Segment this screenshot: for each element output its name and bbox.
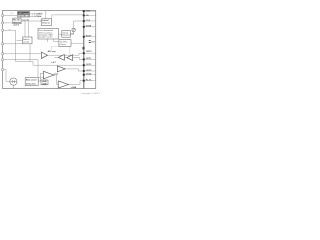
svg-text:fin: fin — [9, 29, 11, 31]
svg-text:BUSY: BUSY — [86, 36, 92, 38]
svg-text:X'tal OSC ck: X'tal OSC ck — [18, 15, 29, 18]
svg-text:f=75kHz: f=75kHz — [34, 16, 42, 18]
svg-text:DATA: DATA — [86, 25, 92, 28]
svg-text:Timer ctl: Timer ctl — [42, 22, 50, 25]
svg-text:control: control — [13, 24, 20, 27]
svg-text:Beat cancel: Beat cancel — [26, 79, 37, 82]
svg-text:sync det: sync det — [22, 19, 29, 22]
svg-text:OUT2: OUT2 — [86, 64, 92, 66]
svg-text:x 8.5: x 8.5 — [54, 73, 58, 75]
svg-text:AGC amp: AGC amp — [48, 50, 57, 53]
svg-text:OUT3: OUT3 — [86, 70, 92, 72]
svg-text:detector: detector — [13, 21, 21, 24]
svg-text:Detector: Detector — [60, 43, 67, 46]
svg-text:OUT1: OUT1 — [86, 58, 92, 60]
svg-text:Regulator: Regulator — [63, 34, 71, 37]
svg-text:decoder and I/O: decoder and I/O — [39, 36, 53, 39]
svg-text:PC1: PC1 — [10, 13, 13, 15]
svg-text:OUT0: OUT0 — [86, 51, 92, 53]
svg-text:decoder: decoder — [23, 40, 30, 43]
svg-text:x26dB: x26dB — [42, 81, 48, 83]
svg-text:OUT4: OUT4 — [86, 73, 92, 76]
svg-text:VDD: VDD — [86, 11, 91, 13]
svg-text:RL TL: RL TL — [86, 80, 93, 82]
svg-text:x30dB: x30dB — [42, 83, 48, 85]
svg-text:OSC control: OSC control — [19, 12, 30, 15]
svg-text:CLK: CLK — [86, 20, 91, 22]
svg-text:x30dB: x30dB — [71, 87, 77, 89]
svg-text:delay timer: delay timer — [26, 83, 36, 86]
svg-text:Copyright © 2005 SANYO: Copyright © 2005 SANYO — [81, 92, 100, 95]
svg-text:Vref: Vref — [91, 42, 95, 44]
